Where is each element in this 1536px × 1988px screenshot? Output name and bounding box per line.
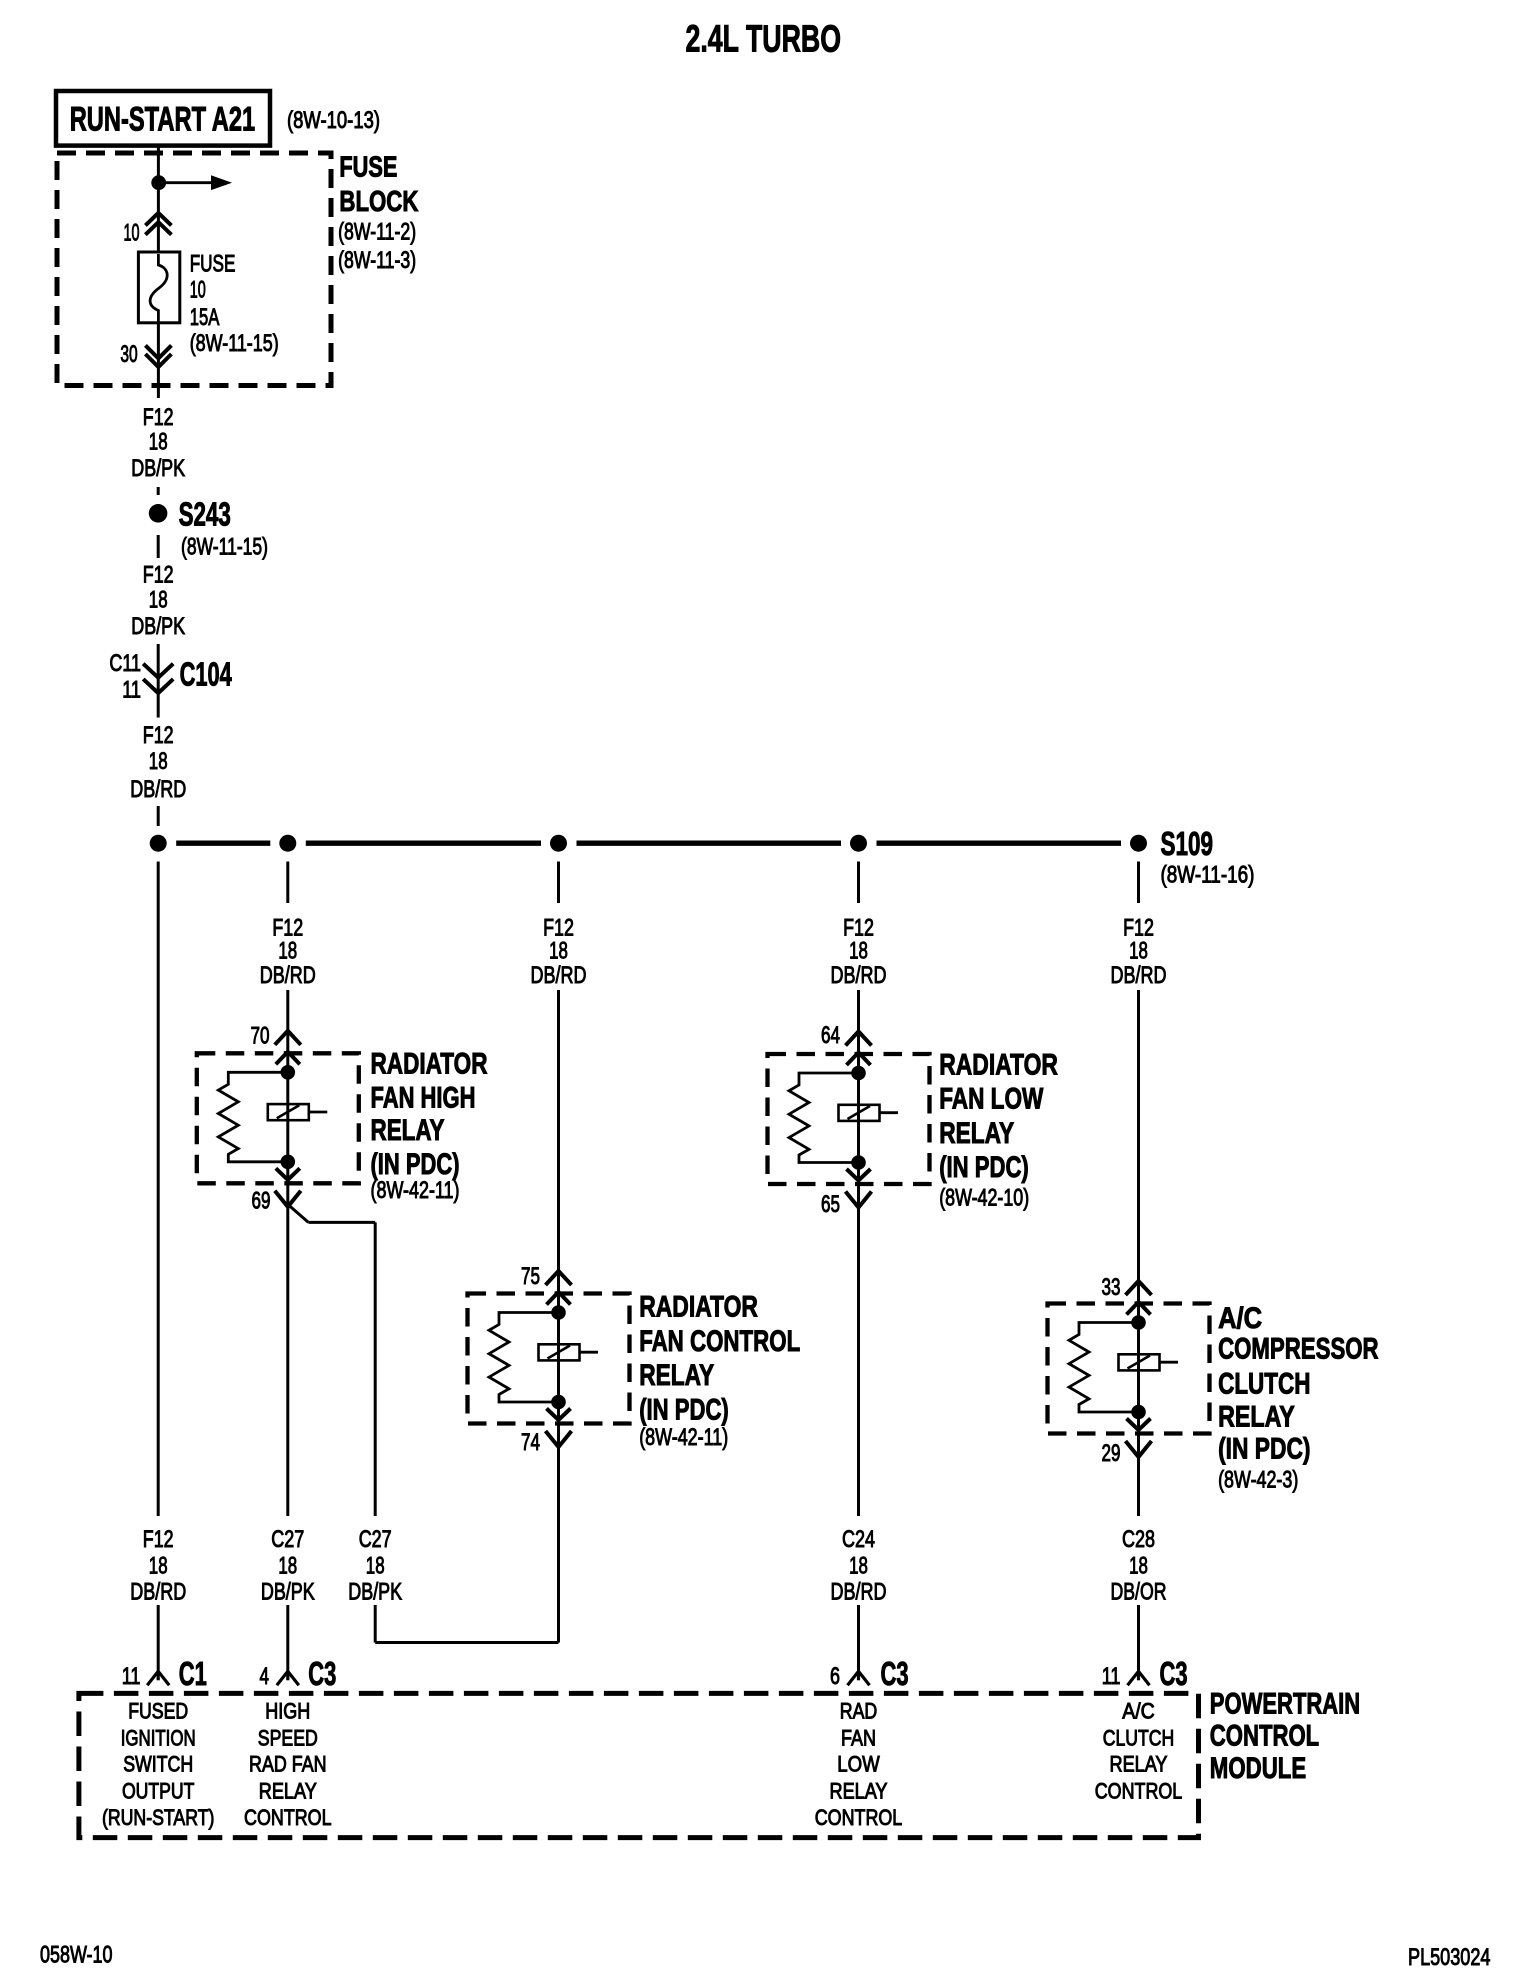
svg-text:PL503024: PL503024 — [1408, 1944, 1491, 1971]
svg-text:(IN PDC): (IN PDC) — [939, 1151, 1029, 1184]
svg-text:C28: C28 — [1122, 1526, 1155, 1553]
svg-text:CONTROL: CONTROL — [1095, 1779, 1183, 1804]
svg-text:OUTPUT: OUTPUT — [122, 1779, 195, 1804]
svg-text:RADIATOR: RADIATOR — [371, 1048, 488, 1081]
svg-text:POWERTRAIN: POWERTRAIN — [1210, 1688, 1360, 1721]
svg-text:BLOCK: BLOCK — [339, 186, 418, 218]
svg-text:10: 10 — [124, 220, 140, 247]
svg-text:COMPRESSOR: COMPRESSOR — [1218, 1333, 1379, 1366]
svg-text:69: 69 — [252, 1188, 271, 1215]
svg-text:18: 18 — [366, 1553, 385, 1580]
svg-text:(8W-42-11): (8W-42-11) — [639, 1424, 728, 1451]
svg-text:DB/RD: DB/RD — [831, 1579, 887, 1606]
svg-text:(RUN-START): (RUN-START) — [102, 1805, 215, 1830]
svg-text:18: 18 — [849, 1553, 868, 1580]
svg-text:C11: C11 — [109, 650, 141, 677]
svg-text:C3: C3 — [881, 1655, 909, 1692]
svg-text:CONTROL: CONTROL — [1210, 1720, 1319, 1753]
svg-text:DB/OR: DB/OR — [1111, 1579, 1167, 1606]
svg-text:18: 18 — [149, 748, 168, 775]
svg-text:RELAY: RELAY — [830, 1779, 888, 1804]
svg-text:F12: F12 — [143, 404, 174, 431]
svg-text:RELAY: RELAY — [639, 1359, 714, 1392]
svg-text:(8W-42-11): (8W-42-11) — [371, 1177, 460, 1204]
svg-text:DB/PK: DB/PK — [348, 1579, 402, 1606]
svg-text:33: 33 — [1102, 1274, 1121, 1301]
svg-text:DB/RD: DB/RD — [531, 962, 587, 989]
svg-text:18: 18 — [849, 938, 868, 965]
svg-text:65: 65 — [821, 1191, 840, 1218]
svg-text:DB/PK: DB/PK — [131, 613, 185, 640]
svg-text:18: 18 — [1129, 938, 1148, 965]
svg-text:(8W-42-3): (8W-42-3) — [1218, 1467, 1298, 1494]
svg-text:11: 11 — [1102, 1663, 1121, 1690]
svg-text:(8W-10-13): (8W-10-13) — [287, 107, 380, 134]
svg-text:FAN LOW: FAN LOW — [939, 1083, 1044, 1116]
svg-text:C27: C27 — [359, 1526, 392, 1553]
svg-text:18: 18 — [1129, 1553, 1148, 1580]
svg-text:10: 10 — [190, 277, 206, 304]
svg-text:CONTROL: CONTROL — [815, 1805, 903, 1830]
svg-text:F12: F12 — [143, 562, 174, 589]
svg-text:HIGH: HIGH — [265, 1699, 310, 1724]
svg-text:(8W-11-2): (8W-11-2) — [338, 219, 416, 246]
svg-text:FAN HIGH: FAN HIGH — [371, 1082, 476, 1115]
svg-text:6: 6 — [830, 1663, 840, 1690]
svg-text:RELAY: RELAY — [1218, 1401, 1295, 1434]
svg-text:RELAY: RELAY — [259, 1779, 317, 1804]
svg-text:SWITCH: SWITCH — [123, 1752, 193, 1777]
svg-text:RADIATOR: RADIATOR — [639, 1291, 758, 1324]
svg-text:FAN CONTROL: FAN CONTROL — [639, 1325, 800, 1358]
svg-text:(8W-11-16): (8W-11-16) — [1161, 862, 1255, 889]
svg-text:11: 11 — [122, 1663, 141, 1690]
svg-text:F12: F12 — [143, 1526, 174, 1553]
svg-text:DB/PK: DB/PK — [261, 1579, 315, 1606]
svg-text:C3: C3 — [308, 1655, 336, 1692]
svg-text:(8W-11-3): (8W-11-3) — [338, 247, 416, 274]
svg-text:74: 74 — [521, 1429, 540, 1456]
svg-text:C1: C1 — [179, 1655, 207, 1692]
svg-text:LOW: LOW — [837, 1752, 880, 1777]
svg-text:MODULE: MODULE — [1210, 1752, 1306, 1785]
svg-text:FUSE: FUSE — [190, 251, 236, 278]
svg-text:S109: S109 — [1161, 825, 1214, 862]
svg-text:18: 18 — [278, 938, 297, 965]
svg-text:DB/RD: DB/RD — [260, 962, 316, 989]
svg-text:CONTROL: CONTROL — [244, 1805, 332, 1830]
svg-text:11: 11 — [122, 676, 141, 703]
svg-text:18: 18 — [149, 428, 168, 455]
svg-text:A/C: A/C — [1218, 1302, 1262, 1335]
svg-text:RUN-START A21: RUN-START A21 — [70, 101, 256, 139]
svg-text:(IN PDC): (IN PDC) — [639, 1393, 729, 1426]
svg-text:CLUTCH: CLUTCH — [1103, 1726, 1175, 1751]
svg-text:F12: F12 — [143, 722, 174, 749]
svg-text:(IN PDC): (IN PDC) — [1218, 1433, 1310, 1466]
svg-text:64: 64 — [821, 1022, 840, 1049]
svg-text:CLUTCH: CLUTCH — [1218, 1368, 1310, 1401]
svg-text:4: 4 — [260, 1663, 270, 1690]
svg-text:RELAY: RELAY — [1110, 1752, 1168, 1777]
svg-text:DB/PK: DB/PK — [131, 455, 185, 482]
svg-text:C24: C24 — [842, 1526, 875, 1553]
svg-text:RAD: RAD — [840, 1699, 878, 1724]
svg-text:FUSE: FUSE — [339, 152, 397, 184]
svg-text:DB/RD: DB/RD — [130, 776, 186, 803]
svg-text:(8W-11-15): (8W-11-15) — [181, 534, 268, 561]
svg-text:A/C: A/C — [1122, 1699, 1155, 1724]
svg-text:C27: C27 — [271, 1526, 304, 1553]
svg-text:29: 29 — [1102, 1440, 1121, 1467]
svg-text:058W-10: 058W-10 — [40, 1942, 113, 1969]
svg-text:(8W-42-10): (8W-42-10) — [939, 1185, 1029, 1212]
svg-text:70: 70 — [251, 1023, 270, 1050]
svg-text:RELAY: RELAY — [939, 1117, 1014, 1150]
svg-text:S243: S243 — [179, 495, 231, 532]
svg-text:15A: 15A — [190, 304, 220, 331]
svg-text:2.4L TURBO: 2.4L TURBO — [686, 19, 842, 61]
svg-text:IGNITION: IGNITION — [121, 1726, 196, 1751]
svg-text:DB/RD: DB/RD — [1111, 962, 1167, 989]
svg-text:C104: C104 — [180, 655, 233, 692]
svg-text:(8W-11-15): (8W-11-15) — [190, 330, 279, 357]
svg-text:75: 75 — [521, 1263, 540, 1290]
svg-text:18: 18 — [149, 1553, 168, 1580]
svg-text:SPEED: SPEED — [258, 1726, 318, 1751]
svg-text:FAN: FAN — [841, 1726, 876, 1751]
svg-text:RELAY: RELAY — [371, 1114, 445, 1147]
svg-text:C3: C3 — [1160, 1655, 1188, 1692]
svg-text:DB/RD: DB/RD — [831, 962, 887, 989]
svg-text:18: 18 — [278, 1553, 297, 1580]
svg-text:DB/RD: DB/RD — [130, 1579, 186, 1606]
svg-text:18: 18 — [149, 587, 168, 614]
svg-text:RADIATOR: RADIATOR — [939, 1048, 1058, 1081]
svg-text:18: 18 — [549, 938, 568, 965]
svg-text:RAD FAN: RAD FAN — [249, 1752, 327, 1777]
svg-text:30: 30 — [120, 341, 137, 368]
svg-text:FUSED: FUSED — [128, 1699, 188, 1724]
